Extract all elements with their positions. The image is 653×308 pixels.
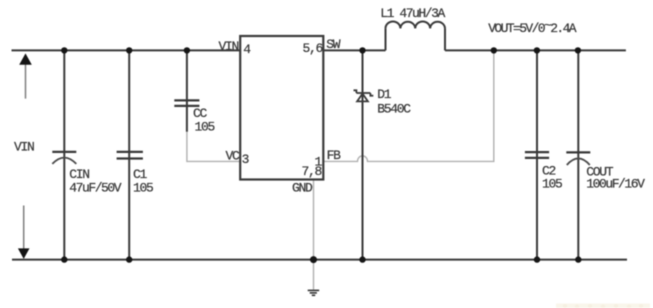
svg-text:VOUT=5V/0~2.4A: VOUT=5V/0~2.4A — [488, 18, 577, 36]
svg-text:GND: GND — [292, 181, 313, 196]
svg-text:105: 105 — [542, 176, 562, 191]
svg-text:FB: FB — [327, 148, 342, 163]
svg-text:B540C: B540C — [377, 101, 411, 116]
svg-text:105: 105 — [195, 119, 215, 134]
svg-text:D1: D1 — [377, 87, 392, 102]
svg-text:VIN: VIN — [218, 39, 238, 54]
svg-text:VIN: VIN — [14, 140, 34, 155]
svg-text:3: 3 — [242, 152, 249, 167]
svg-text:SW: SW — [326, 37, 341, 52]
svg-text:105: 105 — [133, 181, 153, 196]
svg-text:5,6: 5,6 — [302, 41, 322, 56]
svg-text:47uF/50V: 47uF/50V — [69, 181, 121, 196]
svg-text:100uF/16V: 100uF/16V — [586, 176, 645, 191]
svg-text:VC: VC — [225, 149, 240, 164]
svg-text:L1 47uH/3A: L1 47uH/3A — [380, 6, 445, 21]
svg-text:7,8: 7,8 — [301, 164, 321, 179]
